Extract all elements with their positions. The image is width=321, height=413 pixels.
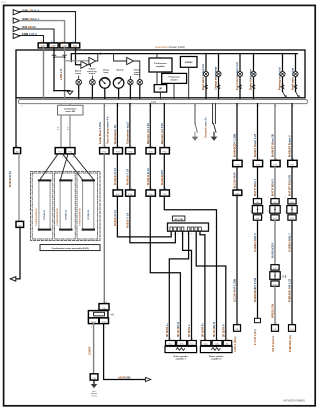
svg-text:Charge warn lamp: Charge warn lamp bbox=[213, 66, 217, 90]
svg-text:7: 7 bbox=[105, 146, 106, 148]
switch blade 213.5 bbox=[214, 124, 217, 133]
resistor squiggle 206 bbox=[205, 85, 208, 90]
svg-text:3: 3 bbox=[192, 339, 193, 341]
svg-text:2: 2 bbox=[276, 323, 277, 325]
speaker amp 1 pin connector 3 bbox=[188, 341, 197, 346]
svg-text:9: 9 bbox=[22, 106, 23, 108]
svg-text:1: 1 bbox=[21, 220, 22, 222]
connector F22 bbox=[66, 148, 75, 154]
ground wire 213.5 double bbox=[212, 104, 214, 124]
gauge G1 bbox=[100, 78, 111, 89]
speaker amp 2 pin connector 1 bbox=[201, 341, 211, 346]
svg-text:8: 8 bbox=[293, 159, 294, 161]
connector F31 bbox=[146, 190, 155, 196]
speaker amp 1 resistor bbox=[176, 348, 184, 351]
sub box 3 dash-dot bbox=[77, 173, 98, 239]
svg-text:6: 6 bbox=[276, 159, 277, 161]
svg-text:PRESS SW: PRESS SW bbox=[271, 303, 275, 318]
crossing wire 1 bbox=[40, 154, 58, 180]
alternator pin box left bbox=[88, 318, 98, 324]
wire W164 mid bbox=[163, 154, 165, 190]
svg-text:1Y0936.02: 1Y0936.02 bbox=[66, 209, 68, 220]
wire W275 low gray bbox=[274, 286, 276, 324]
svg-text:6: 6 bbox=[151, 188, 152, 190]
svg-text:RAD B-W 5A: RAD B-W 5A bbox=[8, 171, 12, 187]
wire W275 to second stack gray bbox=[274, 220, 276, 265]
svg-text:1Y0936 S2 DR 02: 1Y0936 S2 DR 02 bbox=[57, 208, 59, 226]
svg-text:F COS 2 (Fr): F COS 2 (Fr) bbox=[253, 329, 257, 345]
svg-text:MF M6209 P088801: MF M6209 P088801 bbox=[283, 400, 305, 403]
lamp L2 stubs bbox=[91, 85, 93, 100]
resistor squiggle 240 bbox=[239, 85, 242, 90]
svg-text:MAIN B-W 5A: MAIN B-W 5A bbox=[113, 168, 117, 185]
wire alt right to off-page bbox=[104, 324, 146, 380]
box UP bbox=[154, 85, 167, 93]
connector F34 bbox=[253, 160, 262, 166]
svg-text:1: 1 bbox=[293, 323, 294, 325]
svg-text:OIL P (warn): OIL P (warn) bbox=[271, 336, 275, 352]
svg-text:8: 8 bbox=[165, 188, 166, 190]
svg-text:2: 2 bbox=[238, 159, 239, 161]
connector A4 bbox=[70, 43, 79, 48]
alternator pin box right bbox=[99, 318, 108, 324]
wire W257 upper bbox=[257, 104, 259, 161]
gray input wire to U2 bbox=[65, 60, 89, 62]
svg-text:1.25R-L 30: 1.25R-L 30 bbox=[61, 68, 63, 80]
U1 output to bus bbox=[88, 65, 91, 67]
svg-text:RAD B-W 5A: RAD B-W 5A bbox=[113, 210, 117, 226]
svg-text:Driver speaker: Driver speaker bbox=[174, 355, 189, 358]
svg-text:4: 4 bbox=[131, 188, 132, 190]
wire W237 long bbox=[236, 195, 238, 324]
wire from A4 to op-amp U1 bbox=[76, 48, 81, 65]
svg-text:meter SW: meter SW bbox=[65, 110, 75, 113]
connector F9 bbox=[14, 148, 21, 154]
svg-text:amplifier 1: amplifier 1 bbox=[176, 357, 187, 360]
G_CLUSTER bbox=[16, 45, 305, 100]
label meter assembly box bbox=[40, 245, 100, 251]
wire pref to freq bbox=[166, 72, 168, 73]
bus junction dots bbox=[100, 53, 102, 55]
buffer amp U1 bbox=[81, 61, 88, 68]
svg-text:output: output bbox=[89, 72, 96, 75]
svg-text:Instrument Cluster (LHD): Instrument Cluster (LHD) bbox=[155, 45, 185, 49]
G_LEFT bbox=[8, 98, 100, 281]
gauge G1 stub bbox=[104, 88, 106, 99]
svg-text:Fuel reserve warn ind: Fuel reserve warn ind bbox=[235, 62, 239, 90]
connector A1 bbox=[38, 43, 47, 48]
wire from A2 down bbox=[53, 48, 55, 91]
ground arrow 195 bbox=[194, 132, 196, 136]
wire lamps box down bbox=[188, 67, 190, 99]
connector A2 bbox=[49, 43, 58, 48]
svg-text:IGN1 30GA-Y: IGN1 30GA-Y bbox=[22, 8, 40, 12]
U2 output bbox=[96, 54, 98, 61]
strip element 3 bottom bar bbox=[82, 229, 95, 231]
connector F10 bbox=[16, 221, 24, 227]
connector F16 bbox=[90, 374, 98, 380]
inline connector pair W257 bbox=[253, 199, 261, 204]
svg-text:MAIN BT Warn 2B: MAIN BT Warn 2B bbox=[271, 134, 275, 157]
speaker amp 2 body bbox=[200, 346, 232, 352]
wire W130 upper bbox=[129, 104, 131, 148]
svg-text:Ground conn 2x: Ground conn 2x bbox=[203, 117, 207, 138]
connector F26 bbox=[126, 148, 135, 154]
buffer amp U2 bbox=[89, 57, 96, 64]
connector F32 bbox=[160, 190, 169, 196]
wire W164 upper bbox=[163, 104, 165, 148]
svg-text:Rear wind defog ind: Rear wind defog ind bbox=[201, 64, 205, 90]
resistor squiggle 218.5 bbox=[217, 85, 220, 90]
svg-text:Parking brake ind: Parking brake ind bbox=[277, 67, 281, 90]
ground wire 195 gray bbox=[194, 104, 196, 124]
wire pin4 to speaker A pin3 bbox=[183, 231, 192, 340]
svg-text:1: 1 bbox=[205, 339, 206, 341]
svg-text:RADIO BODY 2.5W: RADIO BODY 2.5W bbox=[253, 277, 257, 302]
svg-text:MAIN BODY: MAIN BODY bbox=[160, 169, 164, 185]
svg-text:2: 2 bbox=[268, 197, 269, 199]
svg-text:2: 2 bbox=[238, 106, 239, 108]
connector F21 bbox=[55, 148, 64, 154]
svg-text:2: 2 bbox=[118, 188, 119, 190]
connector end W292 bbox=[289, 325, 296, 332]
svg-text:SP 2B FR R-: SP 2B FR R- bbox=[223, 323, 225, 337]
junction connector block bbox=[168, 223, 209, 231]
svg-text:Year of prep anno 4-5: Year of prep anno 4-5 bbox=[106, 116, 110, 144]
box preference amplifier bbox=[149, 58, 172, 72]
wire W150 to speaker A pin2 bbox=[150, 196, 180, 340]
pin numbers above row1 boxes bbox=[17, 146, 294, 325]
off-page arrow left bbox=[10, 277, 16, 282]
svg-text:MAT BT RGLOW: MAT BT RGLOW bbox=[288, 175, 292, 196]
wire pin5 to speaker A pin1 bbox=[169, 231, 188, 340]
strip element 2 top bar bbox=[59, 179, 72, 181]
svg-text:B-W: B-W bbox=[57, 126, 59, 130]
lamp wire 282.5 bbox=[282, 54, 284, 92]
bus arrow bbox=[100, 53, 103, 55]
warning lamp 253.5 bbox=[251, 71, 256, 76]
svg-text:S1c: S1c bbox=[190, 344, 193, 346]
junction dot bbox=[53, 90, 55, 92]
chassis ground bottom bbox=[93, 380, 95, 384]
svg-text:MAIN B-Y 5A: MAIN B-Y 5A bbox=[125, 169, 129, 185]
wires bar to comb box bbox=[60, 104, 62, 106]
strip element 3 top bar bbox=[82, 179, 95, 181]
connector F35 bbox=[271, 160, 280, 166]
wire IGN feed 1 bbox=[20, 12, 76, 43]
G_RIGHT bbox=[233, 104, 298, 352]
wire feed 3 bbox=[20, 29, 54, 43]
svg-text:output: output bbox=[134, 73, 141, 76]
connector F33 bbox=[233, 160, 242, 166]
svg-text:IGN SIGNL: IGN SIGNL bbox=[22, 25, 37, 29]
speaker amp 2 pin connector 3 bbox=[223, 341, 232, 346]
svg-text:Lamp Meet 1.25G: Lamp Meet 1.25G bbox=[98, 122, 102, 144]
switch 295.5 bbox=[296, 92, 299, 97]
svg-text:MAIN BODY 1.25B: MAIN BODY 1.25B bbox=[233, 134, 237, 157]
svg-text:sensor: sensor bbox=[75, 73, 82, 75]
wire W292 low bbox=[291, 220, 293, 325]
svg-text:SP 2B FR R+: SP 2B FR R+ bbox=[203, 322, 205, 337]
crossing wire 3 bbox=[61, 154, 69, 180]
ground arrow 213.5 bbox=[213, 132, 215, 136]
wire W117 to junction pin1 bbox=[117, 196, 171, 237]
G_CLUSTER_RIGHT bbox=[201, 53, 300, 100]
wire W104 gray upper bbox=[103, 104, 105, 148]
junction pin numbers bbox=[170, 234, 200, 236]
svg-text:Lamps: Lamps bbox=[185, 62, 193, 64]
warning lamp 282.5 bbox=[280, 71, 285, 76]
svg-text:P BRAKE SW 1.25: P BRAKE SW 1.25 bbox=[288, 278, 292, 302]
svg-text:8: 8 bbox=[151, 146, 152, 148]
svg-text:amplifier: amplifier bbox=[156, 66, 165, 68]
svg-text:MAIN BODY: MAIN BODY bbox=[271, 242, 275, 258]
strip element 1 top bar bbox=[38, 179, 51, 181]
connector F37 bbox=[288, 160, 297, 166]
svg-text:Combination: Combination bbox=[64, 107, 77, 110]
svg-text:2: 2 bbox=[62, 157, 63, 159]
svg-text:MAIN F Wash 1.25: MAIN F Wash 1.25 bbox=[253, 133, 257, 157]
indicator lamp L4 bbox=[137, 80, 142, 85]
connector end W237 bbox=[234, 325, 241, 332]
svg-text:1: 1 bbox=[105, 327, 106, 329]
connector F27 bbox=[113, 190, 122, 196]
gauge G2 stub bbox=[118, 88, 120, 99]
buffer amp U3 bbox=[127, 57, 134, 64]
connector F25 bbox=[113, 148, 122, 154]
arrow link between diodes bbox=[54, 56, 65, 58]
box frequency divider bbox=[162, 73, 187, 83]
connector F29 bbox=[146, 148, 155, 154]
wire W237 mid bbox=[236, 167, 238, 190]
alternator connector top bbox=[99, 304, 109, 310]
wire pin7 to speaker B pin3 bbox=[196, 231, 226, 340]
wire W117 upper bbox=[116, 104, 118, 148]
svg-text:4: 4 bbox=[73, 157, 74, 159]
svg-text:1Y0936.01: 1Y0936.01 bbox=[44, 209, 46, 220]
wire bus to U3 bbox=[114, 54, 127, 61]
svg-text:6: 6 bbox=[165, 146, 166, 148]
speaker amp 1 body bbox=[165, 346, 197, 352]
ground symbol in cluster bbox=[67, 91, 73, 94]
wire W150 upper bbox=[149, 104, 151, 148]
speaker amp 1 pin connector 1 bbox=[166, 341, 176, 346]
diode mark on A3 wire bbox=[63, 55, 67, 58]
resistor squiggle 282.5 bbox=[281, 85, 284, 90]
wire freq down bbox=[173, 83, 175, 99]
connector F24 bbox=[100, 148, 109, 154]
svg-text:amplifier 2: amplifier 2 bbox=[211, 357, 222, 360]
wire far-left upper (black) cluster corner down bbox=[15, 98, 17, 148]
wire from A1 (gray) down bbox=[43, 48, 45, 100]
meter assembly outer dashed box bbox=[31, 172, 101, 241]
wire pin8 to speaker B pin1 bbox=[200, 231, 205, 340]
wire W275 upper gray bbox=[274, 104, 276, 161]
lamp wire 240 bbox=[239, 54, 241, 100]
svg-text:MAIN W-B 5A: MAIN W-B 5A bbox=[146, 168, 150, 185]
internal bus wire bbox=[71, 54, 297, 62]
switch 282.5 bbox=[283, 92, 286, 97]
svg-text:S.VERA AWL 5: S.VERA AWL 5 bbox=[253, 233, 257, 252]
wire W257 mid bbox=[257, 167, 259, 199]
instrument cluster box bbox=[16, 50, 305, 98]
resistor squiggle 253.5 bbox=[252, 85, 255, 90]
connector F30 bbox=[160, 148, 169, 154]
alternator inner box bbox=[94, 312, 105, 316]
gauge G2 bbox=[113, 78, 124, 89]
warning lamp 295.5 bbox=[293, 71, 298, 76]
svg-text:FRM 2.0F A: FRM 2.0F A bbox=[22, 32, 37, 36]
svg-text:2: 2 bbox=[181, 339, 182, 341]
svg-text:6: 6 bbox=[191, 234, 192, 236]
sub box 1 dash-dot bbox=[32, 173, 53, 239]
svg-text:1: 1 bbox=[170, 339, 171, 341]
svg-text:S.VERA AWL 7: S.VERA AWL 7 bbox=[288, 233, 292, 252]
box lamps bbox=[180, 57, 197, 68]
inline connector pair W275 bbox=[271, 199, 279, 204]
indicator lamp L1 bbox=[76, 79, 82, 85]
svg-text:B.COS 4A-P: B.COS 4A-P bbox=[233, 172, 237, 188]
svg-text:Dimmer ctrl 1.25: Dimmer ctrl 1.25 bbox=[146, 123, 150, 144]
indicator lamp L3 bbox=[128, 80, 133, 85]
svg-text:COS 1 (Rsv): COS 1 (Rsv) bbox=[233, 336, 237, 352]
wire W117 mid bbox=[116, 154, 118, 190]
wire W164 to speaker B pin2 bbox=[164, 196, 216, 340]
strip element 1 rails bbox=[38, 180, 40, 229]
svg-text:4A-2: 4A-2 bbox=[1, 1, 7, 4]
svg-text:IGN2 30GA-Y: IGN2 30GA-Y bbox=[22, 17, 40, 21]
off-page arrow right bbox=[145, 377, 150, 381]
svg-text:S2c: S2c bbox=[226, 344, 229, 346]
wire feed 2 (gray) bbox=[20, 21, 65, 43]
svg-text:1Y0936 S2 DR 03: 1Y0936 S2 DR 03 bbox=[80, 208, 82, 226]
speaker amp 2 pin connector 2 bbox=[212, 341, 222, 346]
svg-text:2: 2 bbox=[174, 234, 175, 236]
connector F36 bbox=[233, 190, 242, 195]
svg-text:3: 3 bbox=[178, 234, 179, 236]
svg-text:Speedo: Speedo bbox=[116, 70, 124, 72]
G_MIDDLE bbox=[98, 104, 226, 341]
svg-text:C.Pa: C.Pa bbox=[151, 102, 157, 104]
svg-text:1: 1 bbox=[17, 146, 18, 148]
wire far-left (gray) to connector bbox=[18, 154, 20, 222]
crossing wire 2 bbox=[63, 154, 83, 180]
wire feed 4 bbox=[20, 36, 44, 43]
svg-text:1Y0936.03: 1Y0936.03 bbox=[88, 209, 90, 220]
speaker amp 1 pin connector 2 bbox=[177, 341, 187, 346]
svg-text:SP CD 2RG W: SP CD 2RG W bbox=[178, 321, 180, 337]
wire W150 mid bbox=[149, 154, 151, 190]
svg-text:3: 3 bbox=[91, 327, 92, 329]
svg-text:1: 1 bbox=[238, 188, 239, 190]
wire W275 mid gray bbox=[274, 167, 276, 199]
lamp wire 253.5 bbox=[253, 54, 255, 100]
combination switch box bbox=[58, 105, 84, 115]
diode mark on A2 wire bbox=[52, 55, 56, 58]
connector end W275 bbox=[272, 325, 279, 332]
wire W130 to junction pin2 bbox=[130, 196, 176, 243]
svg-text:MAIN BT Brake 2: MAIN BT Brake 2 bbox=[288, 135, 292, 157]
wire W292 mid bbox=[291, 167, 293, 199]
wire bus to pref box bbox=[156, 54, 158, 58]
svg-text:1: 1 bbox=[170, 234, 171, 236]
svg-text:3: 3 bbox=[118, 146, 119, 148]
svg-text:Brake fluid warn: Brake fluid warn bbox=[248, 69, 252, 90]
svg-text:4: 4 bbox=[259, 159, 260, 161]
svg-text:Preferences: Preferences bbox=[154, 63, 167, 65]
wire to off-page left bbox=[16, 227, 20, 279]
connector strip C.Pa bbox=[18, 100, 307, 104]
svg-text:1: 1 bbox=[238, 323, 239, 325]
wire A2 to ground bbox=[54, 90, 70, 92]
inline connector pair C-8 bbox=[271, 265, 279, 270]
svg-text:8: 8 bbox=[293, 106, 294, 108]
off-page arrow IGN feed 1 bbox=[13, 10, 20, 15]
resistor squiggle 295.5 bbox=[294, 85, 297, 90]
wire W104 gray lower to alternator block bbox=[103, 154, 105, 304]
G_BOTTOM bbox=[87, 172, 291, 397]
wire W257 low bbox=[257, 220, 259, 318]
svg-text:7: 7 bbox=[105, 106, 106, 108]
svg-text:Tachometer sig 3: Tachometer sig 3 bbox=[125, 122, 129, 144]
lamp wire 295.5 bbox=[295, 54, 297, 92]
svg-text:P BRAKE (w): P BRAKE (w) bbox=[288, 335, 292, 352]
wire alt left down gray bbox=[93, 324, 95, 374]
svg-text:Illumination 3G: Illumination 3G bbox=[113, 125, 117, 144]
svg-text:2.0B-R: 2.0B-R bbox=[87, 346, 91, 355]
svg-text:MAT P NOA 1: MAT P NOA 1 bbox=[253, 179, 257, 196]
svg-text:1: 1 bbox=[57, 157, 58, 159]
svg-text:5: 5 bbox=[131, 146, 132, 148]
svg-text:Dimmer ctrl 2.25: Dimmer ctrl 2.25 bbox=[160, 123, 164, 144]
sub box 2 dash-dot bbox=[55, 173, 76, 239]
wire W130 mid bbox=[129, 154, 131, 190]
lamp wire 218.5 bbox=[218, 54, 220, 100]
svg-text:UP: UP bbox=[159, 89, 163, 91]
pin ticks below bar bbox=[22, 106, 294, 108]
wire W292 upper bbox=[291, 104, 293, 161]
connector end W257 bbox=[255, 318, 261, 322]
alternator body bbox=[88, 311, 108, 318]
svg-text:RAD B-Y 5A: RAD B-Y 5A bbox=[125, 213, 129, 228]
U3 output bbox=[134, 61, 140, 77]
G_BAR bbox=[18, 100, 307, 108]
warning lamp 206 bbox=[203, 71, 208, 76]
connector A3 bbox=[60, 43, 69, 48]
svg-text:SP 1B FR L+: SP 1B FR L+ bbox=[167, 323, 169, 337]
off-page arrow feed 4 bbox=[13, 33, 20, 38]
warning lamp 218.5 bbox=[216, 71, 221, 76]
indicator lamp L2 bbox=[90, 79, 96, 85]
connector F28 bbox=[126, 190, 135, 196]
speaker amp 2 resistor bbox=[212, 348, 220, 351]
svg-text:SP 1B FR L-: SP 1B FR L- bbox=[189, 324, 191, 337]
wires comb box down (gray) bbox=[60, 115, 62, 148]
svg-text:2: 2 bbox=[217, 339, 218, 341]
wire pref to UP bbox=[156, 72, 158, 85]
wire W237 upper bbox=[236, 104, 238, 161]
svg-text:4: 4 bbox=[258, 106, 259, 108]
warning lamp 240 bbox=[237, 71, 242, 76]
svg-text:6: 6 bbox=[285, 197, 286, 199]
strip element 1 bottom bar bbox=[38, 229, 51, 231]
svg-text:A/CON SIG: A/CON SIG bbox=[118, 376, 131, 379]
svg-text:divider: divider bbox=[171, 80, 178, 82]
svg-text:SP CD 2RG W: SP CD 2RG W bbox=[214, 321, 216, 337]
svg-text:2: 2 bbox=[106, 302, 107, 304]
svg-text:Frequency: Frequency bbox=[169, 77, 181, 79]
strip element 3 rails bbox=[82, 180, 84, 229]
